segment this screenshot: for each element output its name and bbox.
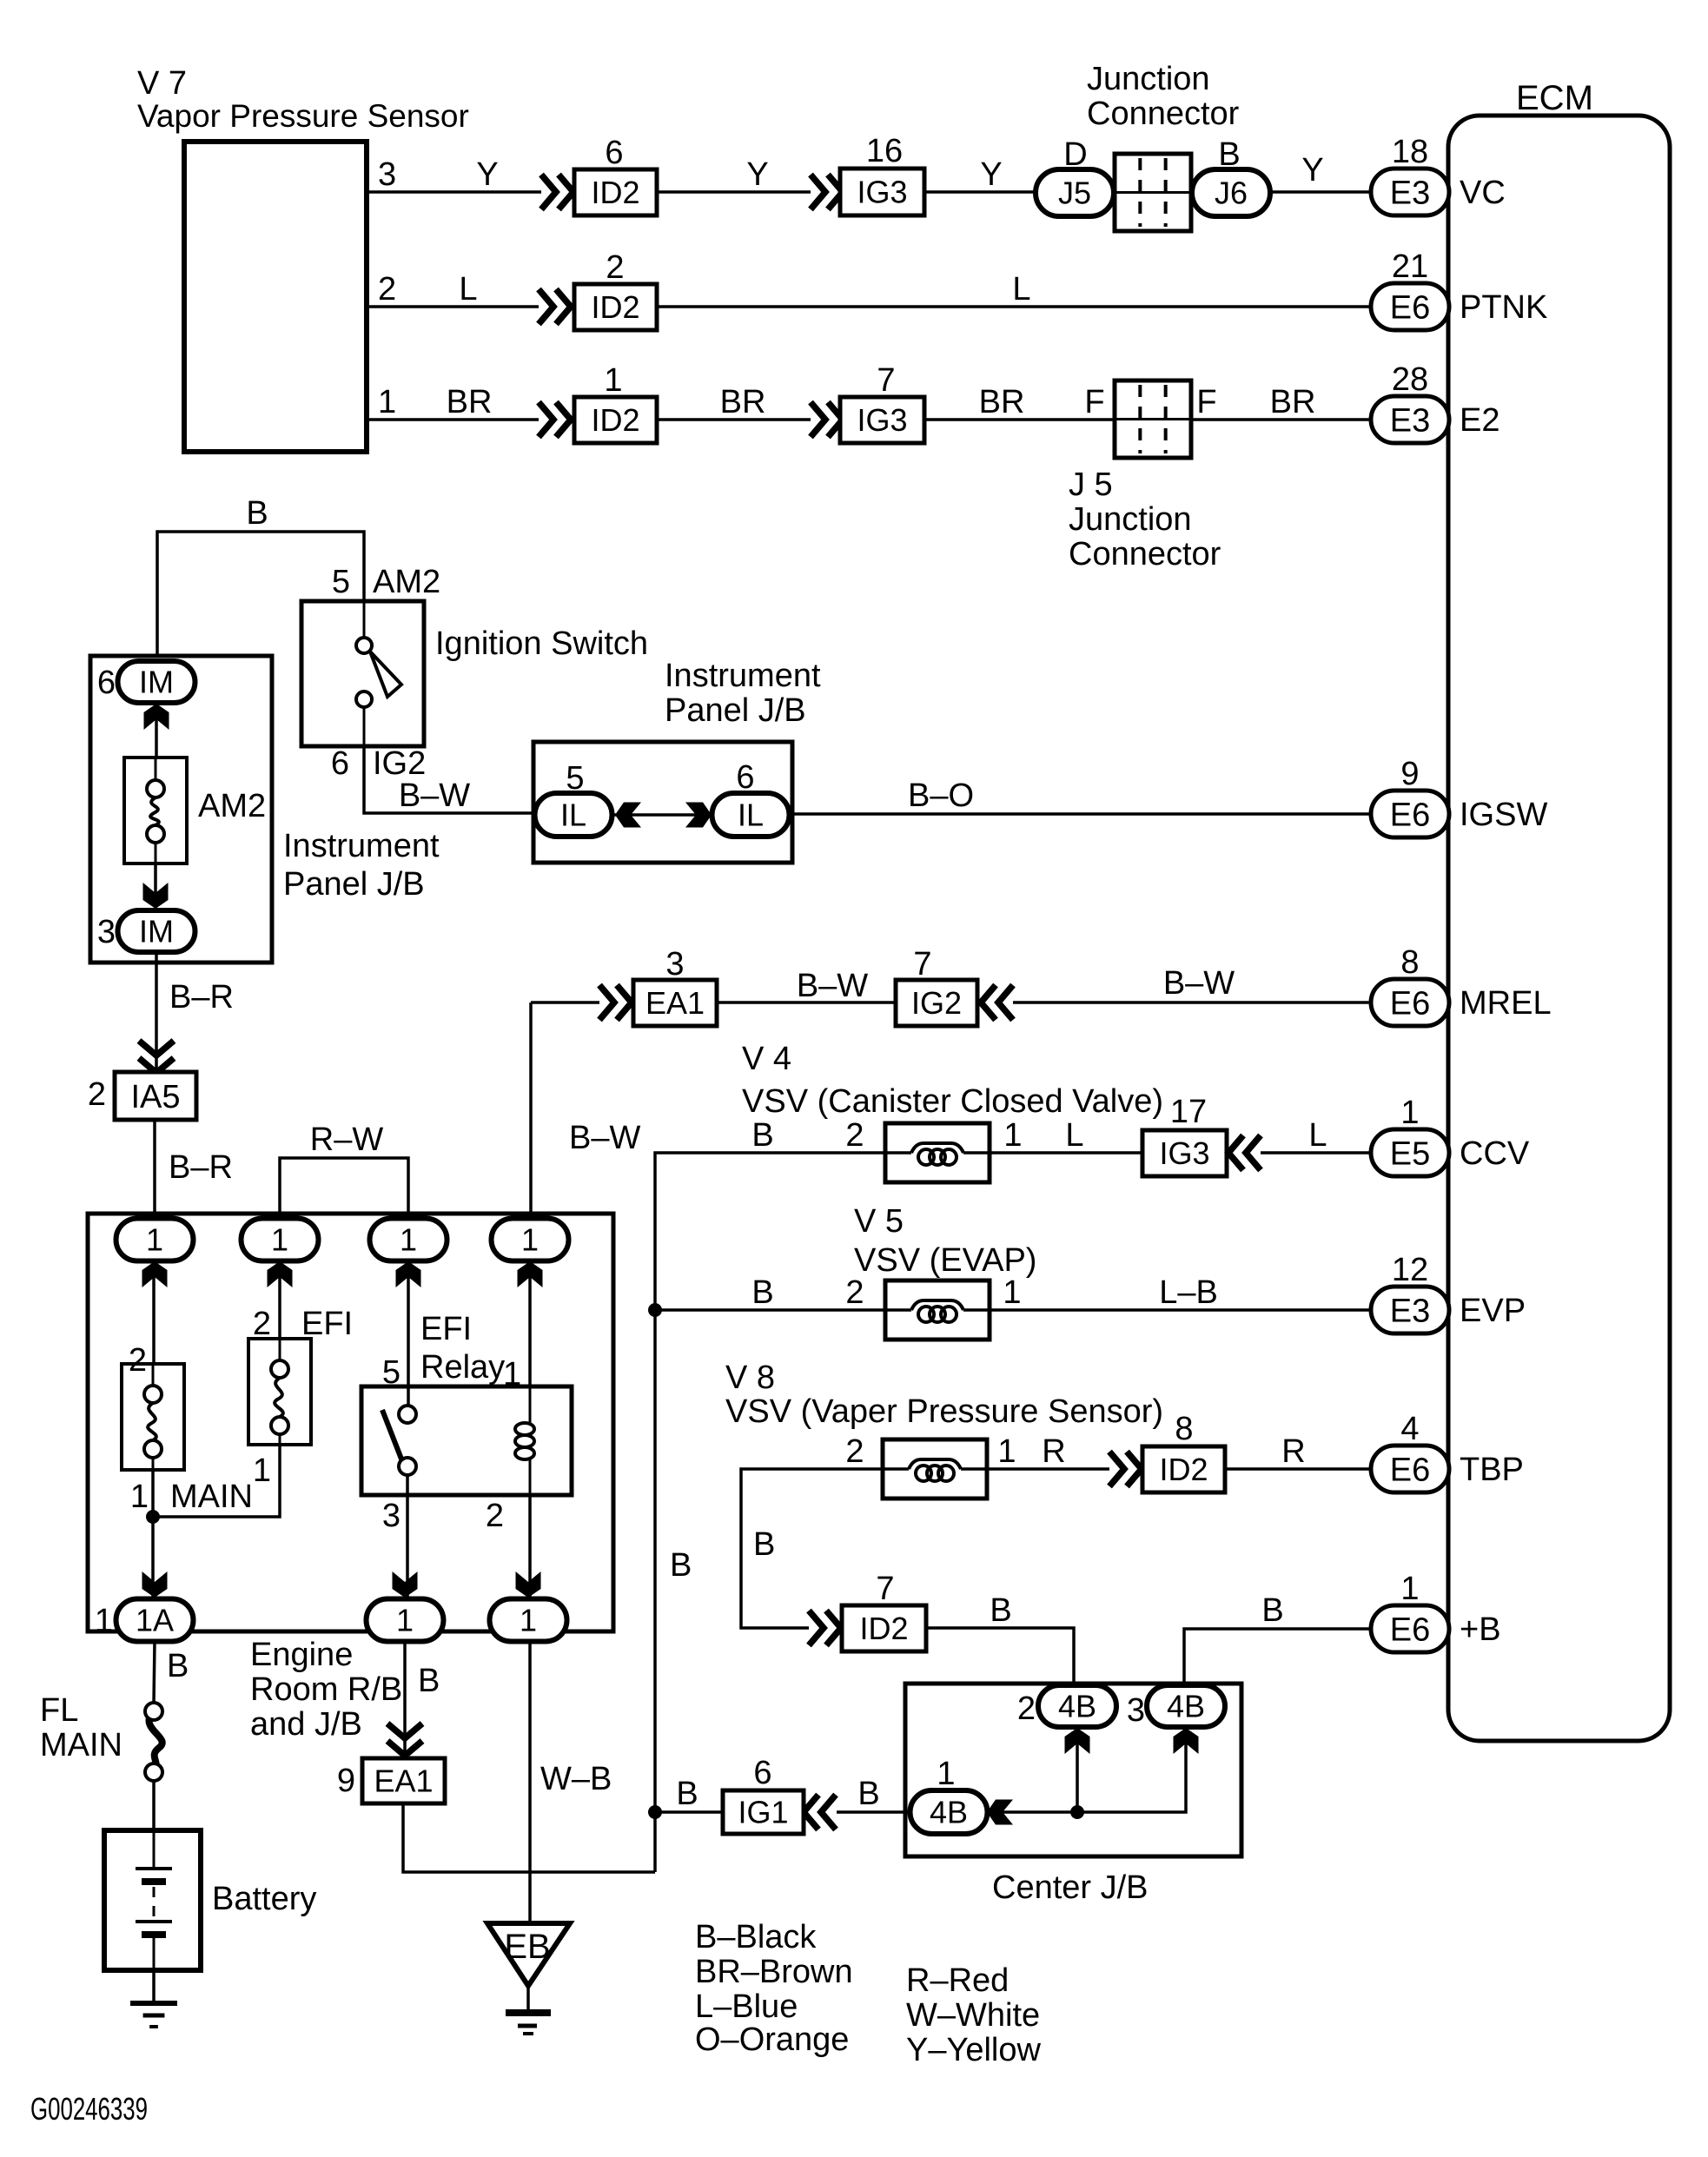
junction connector J5 oval D bbox=[1036, 136, 1114, 216]
connector RB oval3 bottom bbox=[367, 1599, 444, 1642]
svg-text:BR: BR bbox=[1270, 384, 1316, 420]
wire BR J5 to E3 bbox=[1191, 384, 1371, 420]
connector IL-5 bbox=[535, 760, 612, 837]
svg-text:7: 7 bbox=[876, 1571, 894, 1607]
svg-text:Y: Y bbox=[746, 156, 768, 193]
svg-text:B–Black: B–Black bbox=[695, 1919, 817, 1955]
connector IA5 bbox=[88, 1072, 196, 1120]
wire V7 pin3 Y bbox=[367, 156, 541, 193]
ECM pin E6-9 IGSW bbox=[1371, 756, 1547, 837]
svg-text:1: 1 bbox=[400, 1222, 417, 1258]
wire 4B-3 down to bus bbox=[988, 1727, 1186, 1812]
svg-text:IM: IM bbox=[139, 914, 174, 949]
svg-text:V 8: V 8 bbox=[725, 1360, 775, 1396]
fuse MAIN bbox=[122, 1342, 253, 1515]
svg-text:R–W: R–W bbox=[310, 1122, 384, 1158]
wire 4B-2 down bbox=[1076, 1727, 1079, 1812]
svg-text:O–Orange: O–Orange bbox=[695, 2021, 849, 2058]
svg-text:2: 2 bbox=[486, 1498, 504, 1534]
svg-text:2: 2 bbox=[845, 1433, 864, 1470]
svg-text:IG3: IG3 bbox=[857, 175, 907, 210]
wire relay pin2 down bbox=[486, 1495, 530, 1599]
svg-text:2: 2 bbox=[845, 1117, 864, 1154]
svg-text:Panel J/B: Panel J/B bbox=[283, 866, 425, 903]
svg-text:1: 1 bbox=[520, 1603, 537, 1638]
junction box center JB bbox=[905, 1684, 1241, 1906]
svg-text:IM: IM bbox=[139, 665, 174, 700]
svg-text:B: B bbox=[418, 1663, 440, 1699]
wire B-W EA1 to IG2 bbox=[717, 968, 896, 1004]
svg-text:E5: E5 bbox=[1390, 1135, 1430, 1172]
svg-text:B: B bbox=[167, 1648, 189, 1684]
svg-text:V 4: V 4 bbox=[742, 1041, 791, 1077]
svg-text:1: 1 bbox=[146, 1222, 163, 1258]
connector RB oval3 top bbox=[370, 1219, 447, 1288]
wire B battery feed to AM2 bbox=[157, 495, 364, 661]
svg-text:TBP: TBP bbox=[1460, 1452, 1524, 1488]
node junction EVP branch bbox=[648, 1303, 662, 1317]
svg-text:Y: Y bbox=[1301, 152, 1323, 189]
svg-text:R: R bbox=[1042, 1433, 1065, 1470]
svg-text:1: 1 bbox=[130, 1479, 149, 1515]
ECM pin E5-1 CCV bbox=[1371, 1095, 1530, 1176]
connector ID2-1 bbox=[574, 362, 657, 443]
svg-text:IG2: IG2 bbox=[911, 985, 962, 1021]
wire oval2 to EFI fuse bbox=[278, 1261, 281, 1339]
wire Y J6 to E3 bbox=[1270, 152, 1371, 192]
svg-text:EA1: EA1 bbox=[374, 1763, 433, 1799]
svg-text:B–W: B–W bbox=[1163, 965, 1235, 1002]
wire B 1A to FL bbox=[154, 1641, 189, 1704]
svg-text:21: 21 bbox=[1392, 248, 1428, 285]
ECM pin E3-18 VC bbox=[1371, 134, 1506, 215]
svg-text:B: B bbox=[670, 1547, 692, 1584]
ground battery bbox=[130, 2003, 177, 2027]
label Instrument Panel J/B right bbox=[665, 658, 821, 729]
svg-text:B–R: B–R bbox=[169, 1149, 233, 1186]
relay EFI relay box bbox=[361, 1311, 572, 1495]
wire oval4 to relay coil bbox=[528, 1261, 532, 1386]
connector ID2-8 bbox=[1142, 1411, 1225, 1492]
legend wire colors column1 bbox=[695, 1919, 853, 2058]
svg-text:L–Blue: L–Blue bbox=[695, 1988, 798, 2025]
svg-text:2: 2 bbox=[845, 1274, 864, 1311]
wire B junction to V5 bbox=[655, 1274, 885, 1311]
wire MREL corner to EA1 bbox=[531, 1001, 599, 1004]
svg-text:D: D bbox=[1063, 136, 1087, 173]
junction box instrument panel JB left bbox=[90, 656, 272, 963]
node junction 4B bus bbox=[1070, 1805, 1084, 1819]
svg-text:ECM: ECM bbox=[1516, 79, 1593, 117]
svg-text:L–B: L–B bbox=[1159, 1274, 1218, 1311]
svg-text:16: 16 bbox=[866, 133, 903, 169]
legend wire colors column2 bbox=[906, 1962, 1041, 2068]
connector chevrons down to EA1 bbox=[387, 1724, 422, 1756]
wire B V8 pin2 elbow bbox=[741, 1433, 883, 1628]
svg-text:4B: 4B bbox=[1167, 1689, 1205, 1724]
svg-text:2: 2 bbox=[1017, 1691, 1036, 1727]
arrow up into 4B-2 bbox=[1065, 1728, 1090, 1754]
svg-text:B: B bbox=[246, 495, 268, 532]
connector chevrons to IG3 bbox=[811, 175, 843, 209]
junction connector J6 oval B bbox=[1192, 136, 1270, 216]
label Engine Room RB bbox=[250, 1637, 402, 1743]
wire MAIN fuse down bbox=[151, 1470, 155, 1599]
svg-text:7: 7 bbox=[913, 946, 931, 983]
svg-text:Relay: Relay bbox=[420, 1349, 505, 1386]
svg-text:2: 2 bbox=[88, 1076, 106, 1113]
svg-text:IL: IL bbox=[738, 797, 764, 833]
svg-text:J6: J6 bbox=[1215, 175, 1248, 211]
wire EA1 to B join bbox=[403, 1803, 655, 1872]
svg-text:Connector: Connector bbox=[1087, 96, 1240, 132]
svg-text:IG2: IG2 bbox=[373, 745, 426, 782]
svg-text:3: 3 bbox=[1127, 1692, 1145, 1729]
svg-text:EVP: EVP bbox=[1460, 1293, 1526, 1329]
svg-text:1: 1 bbox=[1400, 1095, 1419, 1131]
svg-text:B: B bbox=[1218, 136, 1240, 173]
wire IM6 to AM2 fuse bbox=[155, 703, 158, 758]
connector IG2-7 bbox=[896, 946, 977, 1026]
ground EB symbol bbox=[506, 2013, 551, 2034]
svg-text:W–B: W–B bbox=[540, 1761, 612, 1797]
svg-text:Panel J/B: Panel J/B bbox=[665, 692, 806, 729]
svg-text:IG3: IG3 bbox=[857, 402, 907, 438]
arrow down into oval3 bottom bbox=[393, 1571, 418, 1598]
svg-text:6: 6 bbox=[753, 1755, 771, 1791]
connector IM-6 bbox=[97, 661, 195, 703]
connector chevrons left IG3 bbox=[1228, 1135, 1261, 1170]
wire Y IG3 to J5 bbox=[924, 156, 1036, 193]
svg-text:L: L bbox=[459, 271, 477, 308]
wire B-W IG2 to MREL bbox=[1013, 965, 1371, 1002]
svg-text:B–W: B–W bbox=[569, 1120, 640, 1156]
node junction IG1 branch bbox=[648, 1805, 662, 1819]
wire B +B to 4B-3 bbox=[1184, 1592, 1371, 1686]
svg-text:B: B bbox=[751, 1117, 773, 1154]
svg-text:1: 1 bbox=[604, 362, 622, 399]
svg-text:5: 5 bbox=[382, 1354, 401, 1391]
svg-text:E2: E2 bbox=[1460, 402, 1499, 439]
svg-text:Room R/B: Room R/B bbox=[250, 1671, 402, 1708]
svg-text:E3: E3 bbox=[1390, 1293, 1430, 1329]
wire B long vertical bbox=[655, 1310, 692, 1872]
svg-text:1: 1 bbox=[1400, 1571, 1419, 1607]
svg-text:Connector: Connector bbox=[1069, 536, 1221, 572]
svg-text:L: L bbox=[1065, 1117, 1083, 1154]
svg-text:Junction: Junction bbox=[1087, 61, 1210, 97]
svg-text:MAIN: MAIN bbox=[40, 1727, 122, 1763]
svg-text:ID2: ID2 bbox=[859, 1611, 908, 1646]
svg-text:IG1: IG1 bbox=[738, 1795, 788, 1830]
sensor V7 Vapor Pressure Sensor box bbox=[137, 65, 469, 452]
svg-text:Instrument: Instrument bbox=[665, 658, 821, 694]
svg-text:1: 1 bbox=[937, 1756, 955, 1792]
svg-text:1: 1 bbox=[503, 1356, 521, 1393]
svg-text:BR–Brown: BR–Brown bbox=[695, 1954, 853, 1990]
svg-text:E6: E6 bbox=[1390, 1611, 1430, 1648]
svg-text:EB: EB bbox=[504, 1928, 550, 1966]
svg-text:ID2: ID2 bbox=[591, 175, 639, 210]
wire EFI fuse branch bbox=[153, 1445, 280, 1517]
svg-text:IA5: IA5 bbox=[130, 1079, 180, 1115]
svg-text:Vapor Pressure Sensor: Vapor Pressure Sensor bbox=[137, 98, 469, 134]
wire L-B V5 to EVP bbox=[990, 1274, 1371, 1311]
wire B-R IA5 to 1A block bbox=[155, 1120, 233, 1219]
svg-text:VSV (EVAP): VSV (EVAP) bbox=[854, 1242, 1036, 1279]
wire B corner to V4 bbox=[655, 1117, 885, 1310]
wire 4B-1 to IG1 bbox=[837, 1776, 910, 1812]
svg-text:2: 2 bbox=[606, 249, 624, 286]
connector EA1-3 bbox=[633, 946, 717, 1026]
connector chevrons down to IA5 bbox=[139, 1041, 174, 1073]
svg-text:Engine: Engine bbox=[250, 1637, 353, 1673]
svg-text:CCV: CCV bbox=[1460, 1135, 1530, 1172]
svg-text:9: 9 bbox=[337, 1763, 355, 1799]
svg-text:4: 4 bbox=[1400, 1411, 1419, 1447]
svg-text:ID2: ID2 bbox=[1159, 1452, 1208, 1487]
svg-text:E3: E3 bbox=[1390, 175, 1430, 211]
switch ignition switch SW bbox=[301, 564, 648, 782]
svg-text:3: 3 bbox=[382, 1498, 401, 1534]
wire battery to ground bbox=[152, 1970, 156, 2003]
svg-text:1: 1 bbox=[1003, 1274, 1021, 1311]
svg-text:6: 6 bbox=[736, 759, 754, 796]
label J5 Junction Connector bbox=[1069, 466, 1221, 572]
svg-text:E6: E6 bbox=[1390, 289, 1430, 326]
solenoid V8 VSV vaper pressure sensor bbox=[725, 1360, 1163, 1499]
svg-text:B: B bbox=[1261, 1592, 1283, 1629]
svg-text:1: 1 bbox=[378, 384, 396, 420]
svg-text:28: 28 bbox=[1392, 361, 1428, 398]
svg-text:IG3: IG3 bbox=[1159, 1135, 1209, 1171]
ECM pin E3-12 EVP bbox=[1371, 1252, 1526, 1333]
svg-text:7: 7 bbox=[877, 362, 895, 399]
svg-text:3: 3 bbox=[97, 914, 116, 950]
svg-text:1: 1 bbox=[396, 1603, 414, 1638]
ground EB triangle bbox=[487, 1923, 570, 2013]
svg-text:1: 1 bbox=[271, 1222, 288, 1258]
wire B ID2 to 4B-2 bbox=[926, 1592, 1074, 1686]
svg-text:12: 12 bbox=[1392, 1252, 1428, 1288]
fusible link FL MAIN bbox=[40, 1692, 162, 1781]
svg-text:IL: IL bbox=[560, 797, 586, 833]
svg-text:V 5: V 5 bbox=[854, 1203, 904, 1240]
svg-text:5: 5 bbox=[566, 760, 584, 797]
svg-text:VC: VC bbox=[1460, 175, 1506, 211]
svg-text:and J/B: and J/B bbox=[250, 1706, 362, 1743]
connector chevrons to IG3 row3 bbox=[811, 402, 843, 437]
svg-text:B–W: B–W bbox=[399, 777, 470, 814]
svg-text:J5: J5 bbox=[1058, 175, 1091, 211]
label Instrument Panel J/B left bbox=[283, 828, 440, 903]
svg-text:1A: 1A bbox=[136, 1603, 174, 1638]
wire BR IG3 to J5 connector bbox=[924, 384, 1115, 420]
connector chevrons left IG2 bbox=[981, 985, 1013, 1020]
connector RB oval4 top bbox=[492, 1219, 569, 1288]
svg-text:4B: 4B bbox=[1058, 1689, 1096, 1724]
wire L V4 to IG3 bbox=[990, 1117, 1142, 1154]
svg-text:E6: E6 bbox=[1390, 1452, 1430, 1488]
wire B oval3 to EA1 bbox=[405, 1641, 440, 1757]
svg-text:PTNK: PTNK bbox=[1460, 289, 1547, 326]
wire BR ID2 to IG3 bbox=[657, 384, 811, 420]
connector IM-3 bbox=[97, 910, 195, 952]
arrow down into 1A bbox=[142, 1571, 168, 1598]
svg-text:B–R: B–R bbox=[169, 979, 234, 1016]
connector EA1-9 bbox=[337, 1758, 445, 1803]
wire L to CCV bbox=[1261, 1117, 1371, 1154]
junction box instrument panel JB IL bbox=[533, 742, 792, 863]
svg-text:L: L bbox=[1012, 271, 1030, 308]
svg-text:2: 2 bbox=[129, 1342, 147, 1379]
wire B-O IL to IGSW bbox=[790, 777, 1371, 814]
svg-text:L: L bbox=[1308, 1117, 1327, 1154]
svg-text:8: 8 bbox=[1175, 1411, 1193, 1447]
junction connector J5 box bottom bbox=[1115, 380, 1191, 458]
connector ID2-2 bbox=[574, 249, 657, 330]
arrow down into oval4 bottom bbox=[516, 1571, 541, 1598]
battery bbox=[104, 1830, 316, 1970]
wire oval3 to relay pin5 bbox=[407, 1261, 410, 1406]
svg-text:Battery: Battery bbox=[212, 1881, 316, 1917]
svg-text:Instrument: Instrument bbox=[283, 828, 440, 864]
svg-text:EFI: EFI bbox=[420, 1311, 472, 1347]
svg-text:6: 6 bbox=[605, 135, 623, 171]
svg-text:B: B bbox=[676, 1776, 698, 1812]
svg-text:17: 17 bbox=[1170, 1094, 1207, 1130]
wire oval1 to MAIN fuse bbox=[152, 1261, 156, 1364]
wire AM2 fuse to IM3 bbox=[154, 863, 157, 911]
svg-text:Ignition Switch: Ignition Switch bbox=[435, 625, 648, 662]
svg-text:+B: +B bbox=[1460, 1611, 1501, 1648]
connector chevrons to ID2-8 bbox=[1109, 1452, 1142, 1486]
svg-text:BR: BR bbox=[720, 384, 766, 420]
svg-text:AM2: AM2 bbox=[198, 788, 266, 824]
svg-text:B–O: B–O bbox=[908, 777, 974, 814]
connector chevrons left IG1 bbox=[804, 1795, 836, 1829]
svg-text:MREL: MREL bbox=[1460, 985, 1552, 1022]
connector 4B-2 bbox=[1017, 1685, 1116, 1727]
svg-text:W–White: W–White bbox=[906, 1997, 1040, 2034]
svg-text:B: B bbox=[990, 1592, 1011, 1629]
svg-text:5: 5 bbox=[332, 564, 350, 600]
svg-text:BR: BR bbox=[447, 384, 493, 420]
svg-text:AM2: AM2 bbox=[373, 564, 440, 600]
svg-text:VSV (Canister Closed Valve): VSV (Canister Closed Valve) bbox=[742, 1083, 1163, 1120]
connector RB oval4 bottom bbox=[490, 1599, 567, 1642]
wire relay pin3 down bbox=[382, 1475, 407, 1599]
connector RB oval 1A bbox=[95, 1599, 194, 1642]
wire B-W IG2 to IL bbox=[364, 746, 535, 814]
wire FL to battery bbox=[152, 1781, 156, 1830]
ECM module box bbox=[1448, 79, 1670, 1741]
svg-text:R–Red: R–Red bbox=[906, 1962, 1009, 1999]
connector IL-6 bbox=[712, 759, 790, 837]
arrow up into IM6 bbox=[144, 704, 169, 730]
svg-text:EA1: EA1 bbox=[645, 985, 705, 1021]
arrow up into 4B-3 bbox=[1174, 1728, 1199, 1754]
connector IG1-6 bbox=[723, 1755, 804, 1834]
connector IG3-7 bbox=[840, 362, 924, 443]
fuse AM2 bbox=[124, 758, 266, 863]
arrow left into 4B-1 bbox=[987, 1800, 1013, 1825]
svg-text:3: 3 bbox=[378, 156, 396, 193]
svg-text:F: F bbox=[1196, 384, 1216, 420]
connector RB oval1 top bbox=[116, 1219, 194, 1288]
fuse EFI bbox=[248, 1306, 353, 1489]
ECM pin E6-4 TBP bbox=[1371, 1411, 1524, 1492]
connector 4B-3 bbox=[1127, 1685, 1225, 1729]
svg-text:6: 6 bbox=[331, 745, 349, 782]
svg-text:F: F bbox=[1084, 384, 1104, 420]
svg-text:IGSW: IGSW bbox=[1460, 797, 1547, 833]
connector IG3-17 bbox=[1142, 1094, 1227, 1176]
wire IG1 to B bus bbox=[655, 1776, 723, 1812]
svg-text:V 7: V 7 bbox=[137, 65, 187, 102]
ECM pin E6-8 MREL bbox=[1371, 944, 1552, 1026]
connector ID2-6 bbox=[574, 135, 657, 215]
wire R-W jumper bbox=[280, 1122, 408, 1219]
svg-text:1: 1 bbox=[521, 1222, 539, 1258]
svg-text:EFI: EFI bbox=[301, 1306, 353, 1342]
connector 4B-1 bbox=[910, 1756, 988, 1834]
svg-text:G00246339: G00246339 bbox=[30, 2091, 148, 2127]
ECM pin E6-21 PTNK bbox=[1371, 248, 1547, 330]
wire between IL ovals bbox=[612, 813, 712, 817]
svg-text:3: 3 bbox=[665, 946, 684, 983]
svg-text:Y: Y bbox=[980, 156, 1002, 193]
label Junction Connector top bbox=[1087, 61, 1240, 132]
svg-text:2: 2 bbox=[378, 271, 396, 308]
arrow left into IL5 bbox=[615, 803, 641, 828]
connector IG3-16 bbox=[840, 133, 924, 215]
svg-text:Junction: Junction bbox=[1069, 501, 1192, 538]
connector RB oval2 top bbox=[242, 1219, 319, 1288]
wire R V8 pin1 to ID2 bbox=[987, 1433, 1109, 1470]
wire B-R IM3 down bbox=[156, 952, 234, 1070]
svg-text:VSV (Vaper Pressure Sensor): VSV (Vaper Pressure Sensor) bbox=[725, 1393, 1163, 1430]
svg-text:B: B bbox=[753, 1526, 775, 1563]
svg-text:18: 18 bbox=[1392, 134, 1428, 170]
svg-text:Center J/B: Center J/B bbox=[992, 1869, 1149, 1906]
connector chevrons to ID2 row2 bbox=[539, 289, 571, 324]
svg-text:ID2: ID2 bbox=[591, 289, 639, 325]
svg-text:MAIN: MAIN bbox=[170, 1479, 253, 1515]
junction connector box top bbox=[1115, 154, 1191, 231]
svg-text:1: 1 bbox=[253, 1452, 271, 1489]
svg-text:Y: Y bbox=[476, 156, 498, 193]
solenoid V5 VSV EVAP bbox=[854, 1203, 1036, 1340]
svg-text:2: 2 bbox=[253, 1306, 271, 1342]
wire Y ID2 to IG3 bbox=[657, 156, 811, 193]
ECM pin E3-28 E2 bbox=[1371, 361, 1499, 443]
wire R ID2 to TBP bbox=[1225, 1433, 1371, 1470]
svg-text:9: 9 bbox=[1400, 756, 1419, 792]
svg-text:ID2: ID2 bbox=[591, 402, 639, 438]
svg-text:B: B bbox=[857, 1776, 879, 1812]
svg-text:4B: 4B bbox=[930, 1795, 968, 1830]
wire V7 pin2 L bbox=[367, 271, 539, 308]
wire B-W vertical to relay block bbox=[531, 1002, 640, 1219]
solenoid V4 VSV canister closed valve bbox=[742, 1041, 1163, 1182]
arrow down into IM3 bbox=[143, 883, 169, 909]
svg-text:8: 8 bbox=[1400, 944, 1419, 981]
svg-text:E3: E3 bbox=[1390, 402, 1430, 439]
wire W-B oval4 to EB bbox=[530, 1641, 612, 1923]
connector chevrons to ID2 row3 bbox=[539, 402, 571, 437]
svg-text:1: 1 bbox=[95, 1603, 113, 1639]
